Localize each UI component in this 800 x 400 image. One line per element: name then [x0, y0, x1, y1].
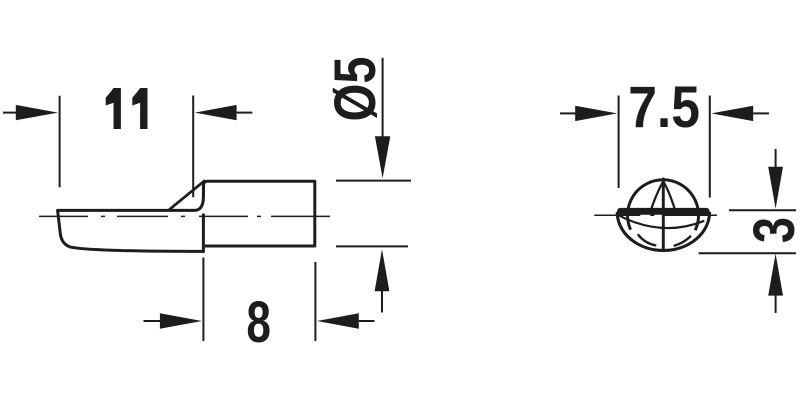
centerline (side view) — [39, 215, 330, 217]
dim 11 arrow right — [195, 105, 237, 120]
dim dia5 extension line top — [336, 180, 411, 182]
ramp edge right (front view) — [663, 182, 674, 209]
centerline (front view) — [594, 214, 717, 216]
center rib line (front view) — [662, 179, 665, 250]
dim 3 extension line bottom — [699, 252, 797, 254]
dim 3 extension line top — [729, 209, 796, 211]
dim 8 arrow right — [317, 313, 359, 329]
brim bar (blade edge-on, front view) — [617, 208, 710, 215]
svg-text:Ø5: Ø5 — [324, 57, 388, 122]
dim 7.5 extension line right — [709, 96, 711, 198]
dim 8 extension line left — [202, 258, 204, 342]
bowl rim arc (front view) — [620, 216, 705, 228]
dim 11 arrow left — [16, 105, 58, 120]
dim 7.5 arrow left — [575, 106, 617, 121]
dim 7.5 arrow right — [711, 106, 753, 121]
dim dia5 extension line bottom — [336, 245, 408, 247]
dim 8 arrow left — [160, 313, 202, 329]
dim 3 arrow down — [768, 167, 783, 209]
blade outline (side view) — [58, 183, 204, 251]
blade ramp edge line — [170, 181, 205, 209]
dim 11 label digit 1a — [106, 88, 121, 129]
dim dia5 arrow down — [375, 136, 390, 178]
svg-text:8: 8 — [246, 289, 271, 354]
step line blade/pin junction — [202, 215, 205, 252]
dim 8 extension line right — [314, 262, 316, 341]
dim 11 extension line left — [59, 96, 61, 188]
dim 11 extension line right — [192, 96, 194, 198]
svg-text:7.5: 7.5 — [628, 74, 700, 139]
dim dia5 arrow up — [375, 249, 390, 291]
dim 11 label digit 1b — [132, 88, 147, 129]
pin outline (side view) — [204, 181, 315, 246]
ramp edge left (front view) — [651, 182, 663, 209]
bowl reflection dash left — [638, 235, 655, 245]
bowl reflection dash right — [675, 237, 691, 246]
pin head circle (front view) — [628, 180, 699, 231]
bowl outline (front view) — [617, 212, 709, 250]
svg-text:3: 3 — [742, 217, 800, 243]
dim 3 arrow up — [768, 254, 783, 296]
dim 7.5 extension line left — [618, 96, 620, 189]
